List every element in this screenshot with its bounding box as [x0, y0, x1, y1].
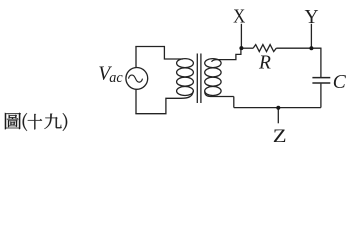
capacitor C bottom plate — [312, 82, 330, 84]
capacitor C top plate — [312, 77, 330, 79]
transformer secondary coil loop 2 — [205, 68, 221, 77]
wire right branch upper — [320, 48, 322, 77]
wire node Z lead — [277, 108, 279, 124]
wire primary bottom lead — [135, 89, 137, 113]
caption text glyph 十 — [28, 114, 42, 130]
node X junction dot — [239, 46, 243, 50]
wire node Y lead — [310, 24, 312, 48]
transformer primary coil loop 2 — [177, 68, 194, 77]
svg-text:C: C — [333, 72, 347, 93]
ac source V_ac circle — [126, 68, 148, 90]
svg-text:X: X — [233, 7, 245, 28]
wire node X lead — [240, 24, 242, 48]
wire secondary coil top jog to node X — [212, 48, 241, 62]
caption text glyph 圖 — [5, 113, 21, 130]
transformer secondary coil loop 4 — [205, 87, 221, 96]
transformer secondary coil loop 3 — [205, 77, 221, 86]
transformer primary coil loop 4 — [177, 87, 194, 96]
caption text glyph 九 — [44, 114, 61, 129]
wire secondary bottom step — [233, 97, 235, 108]
transformer core line right — [200, 54, 202, 104]
wire resistor to node Y and top-right corner — [276, 47, 321, 49]
resistor R zigzag — [253, 45, 276, 52]
caption text glyph ( — [23, 113, 28, 131]
transformer primary coil loop 1 — [177, 59, 194, 68]
svg-text:ac: ac — [109, 70, 123, 86]
wire bottom rail to capacitor branch — [234, 107, 321, 109]
svg-text:Z: Z — [273, 124, 287, 146]
wire primary bottom rail — [135, 98, 181, 113]
transformer primary coil loop 3 — [177, 77, 194, 86]
wire primary coil bottom curl — [181, 91, 193, 98]
node Y junction dot — [309, 46, 313, 50]
wire X dot to resistor — [241, 47, 253, 49]
transformer secondary coil loop 1 — [205, 59, 221, 68]
svg-text:R: R — [258, 52, 271, 73]
wire primary top rail — [135, 47, 183, 60]
wire right branch lower — [320, 84, 322, 108]
wire primary top lead — [135, 47, 137, 68]
svg-text:Y: Y — [305, 7, 319, 28]
ac source sine symbol — [129, 75, 143, 82]
wire secondary coil bottom curl — [205, 91, 234, 97]
node Z junction dot — [276, 106, 280, 110]
transformer core line left — [196, 54, 198, 104]
caption text glyph ) — [63, 113, 68, 131]
